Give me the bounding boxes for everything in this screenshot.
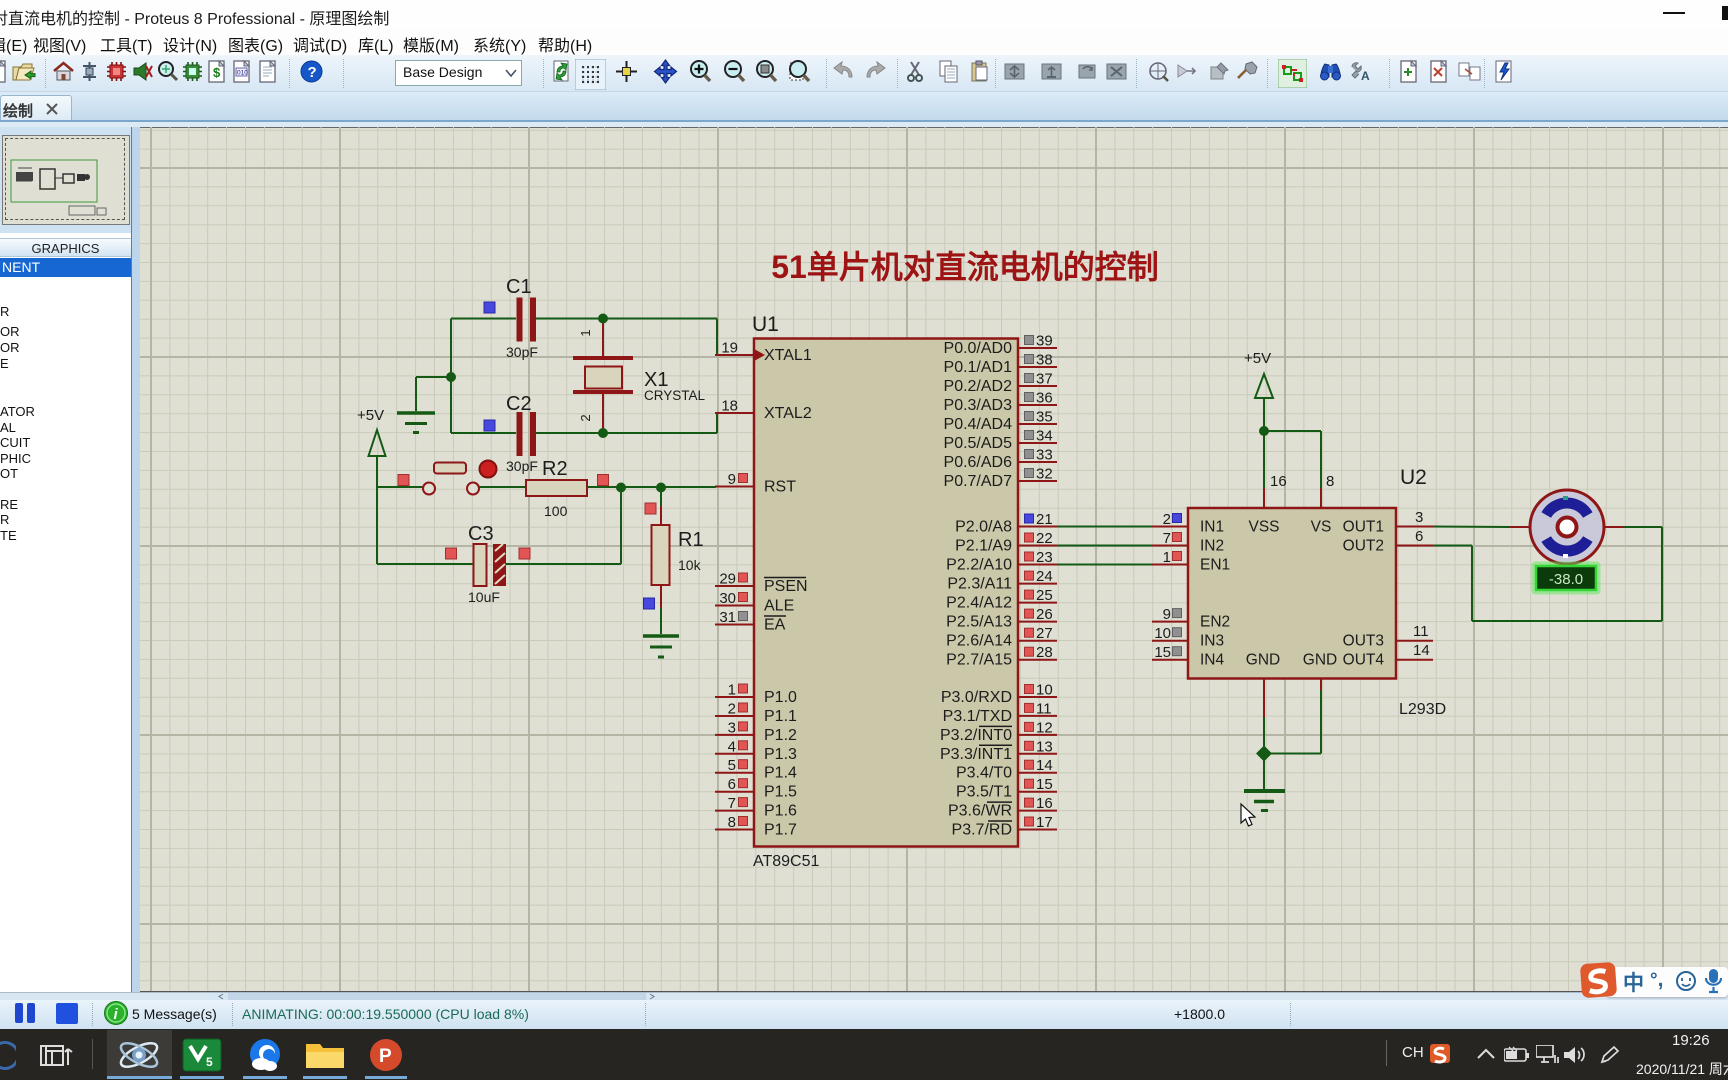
svg-text:14: 14	[1036, 757, 1053, 774]
svg-text:30pF: 30pF	[506, 344, 538, 360]
svg-text:P2.3/A11: P2.3/A11	[947, 576, 1012, 593]
svg-text:24: 24	[1036, 568, 1053, 585]
svg-text:10uF: 10uF	[468, 589, 500, 605]
svg-text:22: 22	[1036, 530, 1053, 547]
svg-text:VS: VS	[1311, 519, 1332, 536]
svg-text:XTAL1: XTAL1	[764, 347, 812, 364]
svg-text:19: 19	[721, 340, 738, 357]
svg-text:U1: U1	[752, 313, 779, 336]
svg-text:IN2: IN2	[1200, 538, 1224, 555]
svg-text:P2.4/A12: P2.4/A12	[946, 595, 1012, 612]
svg-text:32: 32	[1036, 466, 1053, 483]
svg-text:P2.7/A15: P2.7/A15	[946, 652, 1012, 669]
svg-text:5: 5	[728, 757, 736, 774]
svg-text:XTAL2: XTAL2	[764, 405, 812, 422]
svg-text:C2: C2	[506, 393, 532, 415]
svg-text:14: 14	[1413, 642, 1430, 659]
svg-text:10: 10	[1036, 682, 1053, 699]
svg-text:P3.6/WR: P3.6/WR	[948, 803, 1012, 820]
svg-text:EN2: EN2	[1200, 614, 1230, 631]
svg-text:21: 21	[1036, 511, 1053, 528]
svg-text:P: P	[379, 1046, 392, 1067]
svg-text:30pF: 30pF	[506, 458, 538, 474]
svg-text:EN1: EN1	[1200, 557, 1230, 574]
svg-text:+5V: +5V	[357, 407, 384, 424]
svg-text:38: 38	[1036, 352, 1053, 369]
svg-text:P3.4/T0: P3.4/T0	[956, 765, 1012, 782]
svg-text:A: A	[1361, 69, 1370, 83]
svg-text:P3.0/RXD: P3.0/RXD	[941, 689, 1012, 706]
svg-text:CRYSTAL: CRYSTAL	[644, 388, 706, 403]
svg-text:5: 5	[206, 1055, 213, 1069]
svg-text:C3: C3	[468, 523, 494, 545]
svg-text:+5V: +5V	[1244, 350, 1271, 367]
svg-text:7: 7	[1163, 530, 1171, 547]
svg-text:10k: 10k	[678, 557, 702, 573]
svg-text:P2.0/A8: P2.0/A8	[955, 519, 1012, 536]
svg-text:28: 28	[1036, 644, 1053, 661]
svg-text:3: 3	[1415, 509, 1423, 526]
svg-text:2: 2	[728, 701, 736, 718]
svg-text:27: 27	[1036, 625, 1053, 642]
svg-text:2: 2	[578, 414, 593, 421]
svg-text:IN1: IN1	[1200, 519, 1224, 536]
svg-text:OUT4: OUT4	[1343, 652, 1385, 669]
svg-text:1: 1	[1163, 549, 1171, 566]
svg-text:P1.0: P1.0	[764, 689, 797, 706]
svg-text:30: 30	[719, 590, 736, 607]
svg-text:OUT3: OUT3	[1343, 633, 1384, 650]
svg-text:P0.7/AD7: P0.7/AD7	[944, 473, 1013, 490]
svg-text:P1.4: P1.4	[764, 765, 797, 782]
svg-text:9: 9	[1163, 606, 1171, 623]
svg-text:29: 29	[719, 571, 736, 588]
svg-text:P1.1: P1.1	[764, 708, 797, 725]
svg-text:9: 9	[728, 471, 736, 488]
svg-text:36: 36	[1036, 390, 1053, 407]
svg-text:6: 6	[728, 776, 736, 793]
svg-text:P3.7/RD: P3.7/RD	[952, 822, 1012, 839]
svg-text:P2.2/A10: P2.2/A10	[946, 557, 1012, 574]
svg-text:010: 010	[237, 70, 248, 77]
svg-text:P2.5/A13: P2.5/A13	[946, 614, 1012, 631]
svg-text:18: 18	[721, 398, 738, 415]
svg-text:34: 34	[1036, 428, 1053, 445]
svg-text:15: 15	[1154, 644, 1171, 661]
svg-text:P2.1/A9: P2.1/A9	[955, 538, 1012, 555]
svg-text:17: 17	[1036, 814, 1053, 831]
svg-text:25: 25	[1036, 587, 1053, 604]
svg-text:31: 31	[719, 609, 736, 626]
svg-text:6: 6	[1415, 528, 1423, 545]
svg-text:C1: C1	[506, 276, 532, 298]
svg-text:AT89C51: AT89C51	[753, 853, 820, 870]
svg-text:GND: GND	[1246, 652, 1280, 669]
svg-text:P0.4/AD4: P0.4/AD4	[944, 416, 1013, 433]
svg-text:2: 2	[1163, 511, 1171, 528]
svg-text:16: 16	[1036, 795, 1053, 812]
svg-text:16: 16	[1270, 473, 1287, 490]
svg-text:P0.6/AD6: P0.6/AD6	[944, 454, 1013, 471]
svg-text:P1.2: P1.2	[764, 727, 797, 744]
svg-text:P0.3/AD3: P0.3/AD3	[944, 397, 1013, 414]
svg-text:26: 26	[1036, 606, 1053, 623]
svg-text:P1.5: P1.5	[764, 784, 797, 801]
svg-text:13: 13	[1036, 738, 1053, 755]
svg-text:39: 39	[1036, 333, 1053, 350]
svg-text:$: $	[213, 65, 221, 80]
svg-text:IN4: IN4	[1200, 652, 1225, 669]
svg-text:R2: R2	[542, 458, 568, 480]
svg-text:P1.3: P1.3	[764, 746, 797, 763]
svg-text:ALE: ALE	[764, 598, 794, 615]
svg-text:3: 3	[728, 719, 736, 736]
svg-text:R1: R1	[678, 529, 704, 551]
svg-text:-38.0: -38.0	[1549, 571, 1583, 588]
svg-text:P0.0/AD0: P0.0/AD0	[944, 340, 1013, 357]
svg-text:GND: GND	[1303, 652, 1337, 669]
svg-text:51单片机对直流电机的控制: 51单片机对直流电机的控制	[771, 249, 1159, 285]
svg-text:EA: EA	[764, 617, 786, 634]
svg-text:P2.6/A14: P2.6/A14	[946, 633, 1012, 650]
svg-text:33: 33	[1036, 447, 1053, 464]
svg-text:P0.1/AD1: P0.1/AD1	[944, 359, 1013, 376]
svg-text:P1.6: P1.6	[764, 803, 797, 820]
svg-text:P3.3/INT1: P3.3/INT1	[940, 746, 1012, 763]
svg-text:37: 37	[1036, 371, 1053, 388]
svg-text:7: 7	[728, 795, 736, 812]
svg-text:P3.1/TXD: P3.1/TXD	[943, 708, 1012, 725]
svg-text:PSEN: PSEN	[764, 578, 808, 595]
svg-text:L293D: L293D	[1399, 701, 1446, 718]
svg-text:10: 10	[1154, 625, 1171, 642]
svg-text:RST: RST	[764, 479, 796, 496]
svg-text:VSS: VSS	[1248, 519, 1279, 536]
svg-text:IN3: IN3	[1200, 633, 1224, 650]
svg-text:100: 100	[544, 503, 568, 519]
svg-text:P1.7: P1.7	[764, 822, 797, 839]
svg-text:P0.5/AD5: P0.5/AD5	[944, 435, 1013, 452]
svg-text:?: ?	[308, 64, 317, 81]
svg-text:1: 1	[578, 329, 593, 336]
svg-text:OUT1: OUT1	[1343, 519, 1384, 536]
svg-text:8: 8	[728, 814, 736, 831]
svg-text:U2: U2	[1400, 466, 1427, 489]
svg-text:4: 4	[728, 738, 736, 755]
svg-text:P3.5/T1: P3.5/T1	[956, 784, 1012, 801]
svg-text:23: 23	[1036, 549, 1053, 566]
svg-text:P3.2/INT0: P3.2/INT0	[940, 727, 1012, 744]
svg-text:15: 15	[1036, 776, 1053, 793]
svg-text:1: 1	[728, 682, 736, 699]
svg-text:11: 11	[1036, 700, 1052, 717]
svg-text:35: 35	[1036, 409, 1053, 426]
svg-text:12: 12	[1036, 719, 1053, 736]
svg-text:OUT2: OUT2	[1343, 538, 1384, 555]
svg-text:11: 11	[1413, 623, 1429, 640]
svg-text:8: 8	[1326, 473, 1334, 490]
svg-text:P0.2/AD2: P0.2/AD2	[944, 378, 1013, 395]
